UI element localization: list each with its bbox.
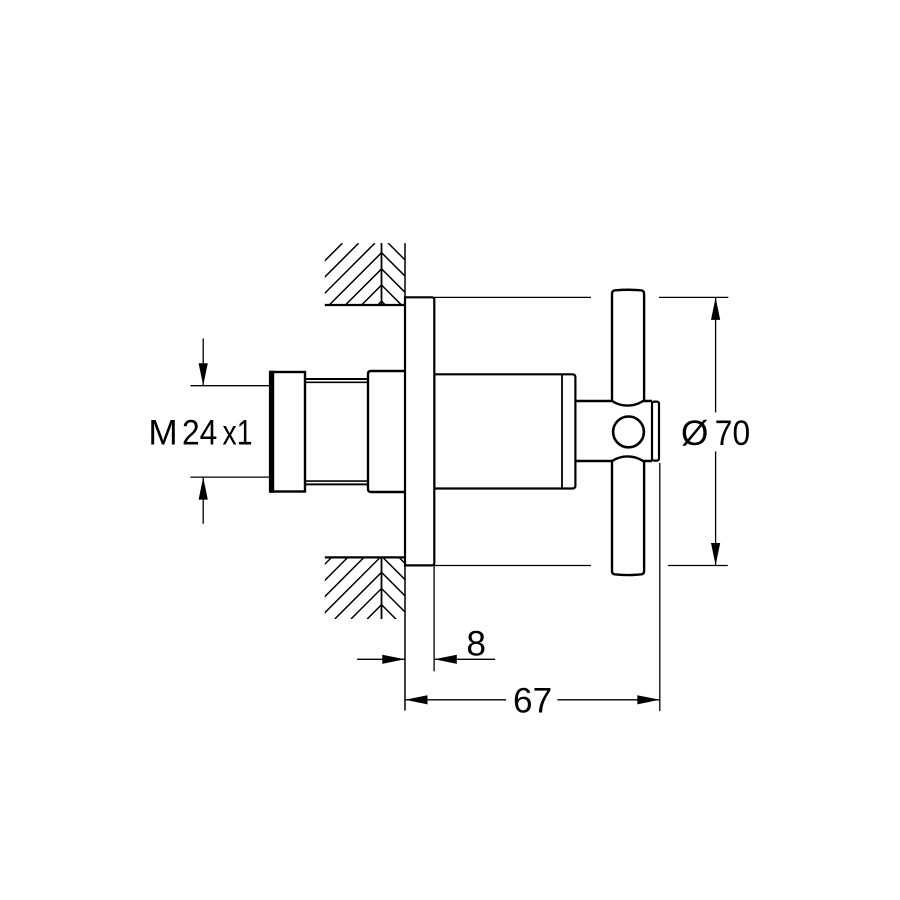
extension line bottom of rosette	[434, 565, 591, 567]
dimension line 67 right	[557, 699, 659, 701]
thread minor line bottom	[305, 480, 368, 482]
arrow 67 left	[405, 695, 428, 704]
dimension line D70 upper	[715, 297, 717, 412]
arrow 8 right	[434, 655, 457, 664]
thread bushing right	[368, 371, 405, 492]
rosette escutcheon plate	[405, 297, 434, 565]
wall hatch top-right diagonals	[382, 236, 406, 324]
handle screw cover cap	[652, 402, 659, 461]
svg-text:M: M	[148, 414, 177, 453]
svg-text:24: 24	[182, 414, 217, 453]
svg-text:8: 8	[466, 624, 486, 663]
dimension line 8 left	[357, 658, 405, 660]
dimension line 8 right	[434, 658, 495, 660]
arrow D70 top	[711, 297, 720, 320]
svg-text:x1: x1	[223, 414, 253, 453]
arrow D70 bottom	[711, 543, 720, 566]
wall hatch bottom-left diagonals	[270, 557, 429, 619]
wall hatch top-left diagonals	[281, 243, 440, 305]
svg-text:Ø: Ø	[681, 414, 708, 453]
extension line M24 top	[190, 385, 269, 387]
extension line top of rosette	[434, 296, 591, 298]
arrow 67 right	[637, 695, 660, 704]
arrow leader M24 bottom	[202, 478, 204, 524]
dimension line D70 lower	[715, 451, 717, 565]
wall hatch bottom seam	[381, 557, 383, 619]
extension line M24 bottom	[190, 476, 269, 478]
valve body cylinder	[434, 374, 575, 488]
wall hatch bottom-right diagonals	[382, 540, 406, 628]
thread major line top	[305, 378, 368, 380]
extension line top right segment	[659, 296, 728, 298]
wall surface bottom edge	[325, 556, 405, 558]
arrow 8 left	[382, 655, 405, 664]
valve body end ring	[561, 374, 563, 488]
thread collar left face edge	[270, 371, 274, 493]
thread collar left	[270, 372, 305, 492]
arrow M24 top	[199, 363, 208, 386]
handle hub/stem	[575, 401, 652, 461]
handle bar	[612, 290, 644, 575]
wall hatch top seam	[381, 243, 383, 305]
wall face line	[404, 243, 406, 710]
thread minor line top	[305, 381, 368, 383]
wall surface top edge	[325, 304, 405, 306]
arrow M24 bottom	[199, 477, 208, 500]
extension line 67 right	[659, 463, 661, 711]
arrow leader M24 top	[202, 338, 204, 385]
dimension line 67 left	[405, 699, 506, 701]
screw boss circle	[613, 417, 644, 448]
extension line bottom right segment	[668, 565, 728, 567]
extension line 8 right	[433, 565, 435, 671]
thread major line bottom	[305, 483, 368, 485]
svg-text:70: 70	[715, 414, 750, 453]
svg-text:67: 67	[513, 682, 552, 721]
